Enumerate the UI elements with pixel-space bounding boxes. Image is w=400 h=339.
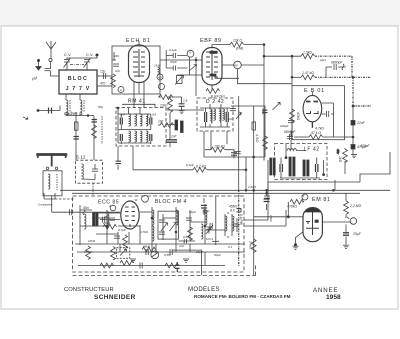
svg-text:MODELES: MODELES [188,287,220,293]
svg-text:19,6: 19,6 [154,64,160,68]
svg-text:1,47 kΩ: 1,47 kΩ [302,71,314,75]
svg-text:8,2 kΩ: 8,2 kΩ [196,165,206,169]
svg-text:1,5kΩ: 1,5kΩ [303,51,312,55]
svg-text:A: A [109,204,111,208]
svg-text:25µF: 25µF [352,232,362,236]
svg-text:22nF: 22nF [356,121,366,125]
svg-text:0,5µ: 0,5µ [183,235,189,239]
svg-text:220Ω: 220Ω [102,221,111,225]
svg-text:W: W [135,198,138,202]
svg-text:470: 470 [100,82,106,86]
svg-text:W: W [302,194,305,198]
svg-text:9,8: 9,8 [152,113,157,117]
svg-text:0,1(FM): 0,1(FM) [239,214,243,225]
svg-text:1,5: 1,5 [183,99,188,103]
svg-text:10kΩ: 10kΩ [88,239,96,243]
svg-text:J 7 7 V: J 7 7 V [66,86,91,92]
svg-text:AV: AV [234,64,238,68]
svg-text:Contacteur: Contacteur [38,203,54,207]
svg-text:22kΩ: 22kΩ [159,104,168,108]
svg-text:240: 240 [113,54,119,58]
svg-text:6800pF: 6800pF [284,130,296,134]
svg-text:(19,7kc): (19,7kc) [214,94,225,98]
svg-text:M.F.1: M.F.1 [206,237,214,241]
svg-text:0,1µF: 0,1µF [186,163,194,167]
svg-text:17,5V: 17,5V [84,250,93,254]
svg-text:4,7kΩ: 4,7kΩ [315,127,324,131]
svg-text:(FM): (FM) [236,47,243,51]
svg-text:Cadres: Cadres [64,111,78,116]
svg-text:47kΩ: 47kΩ [296,112,300,120]
svg-text:470kΩ: 470kΩ [287,205,297,209]
svg-text:45n: 45n [83,206,89,210]
svg-text:CONSTRUCTEUR: CONSTRUCTEUR [64,287,114,293]
svg-text:4,7kΩ: 4,7kΩ [255,134,259,143]
svg-text:SCHNEIDER: SCHNEIDER [94,294,136,301]
svg-text:68kΩ: 68kΩ [143,245,151,249]
svg-text:A.F.: A.F. [229,209,236,213]
svg-text:24pF: 24pF [188,210,196,214]
svg-text:45v: 45v [336,149,340,154]
svg-text:LF 42: LF 42 [304,147,320,153]
svg-text:ANNEE: ANNEE [313,287,338,294]
svg-text:12p: 12p [100,70,106,74]
svg-text:6800pF: 6800pF [331,61,343,65]
svg-text:A: A [189,51,191,55]
svg-text:0,1µF: 0,1µF [169,48,177,52]
svg-text:4,7kΩ: 4,7kΩ [140,230,149,234]
svg-text:1nF: 1nF [228,117,233,121]
svg-text:1nF: 1nF [115,69,120,73]
svg-text:0,1: 0,1 [228,245,233,249]
svg-text:100 kΩ: 100 kΩ [214,145,225,149]
svg-text:1kΩ: 1kΩ [338,156,342,163]
svg-text:1nF: 1nF [120,113,125,117]
svg-text:4,7pF: 4,7pF [118,228,126,232]
svg-text:10k: 10k [158,120,164,124]
svg-text:22k Ω: 22k Ω [232,39,242,43]
svg-text:2,4kΩ: 2,4kΩ [249,240,253,250]
svg-text:D 2 42: D 2 42 [206,99,224,105]
svg-text:RM 41: RM 41 [128,99,146,105]
svg-text:(am): (am) [320,58,326,62]
svg-text:220pF: 220pF [279,124,289,128]
svg-text:EM 81: EM 81 [312,197,331,203]
svg-text:2,4kΩ: 2,4kΩ [247,185,257,189]
svg-text:1958: 1958 [326,294,341,301]
svg-text:47 k Ω: 47 k Ω [311,131,321,135]
svg-text:C.V.: C.V. [64,52,71,57]
svg-text:2,2 MΩ: 2,2 MΩ [349,204,361,208]
svg-text:BLOC: BLOC [68,76,88,82]
svg-text:45n: 45n [104,215,109,219]
svg-text:470pF: 470pF [360,144,371,148]
svg-text:33pF: 33pF [202,210,210,214]
svg-text:10nF: 10nF [269,215,273,222]
svg-text:BLOC FM 4: BLOC FM 4 [155,199,187,205]
svg-text:EBF 89: EBF 89 [200,38,222,44]
svg-text:10nF: 10nF [261,108,265,115]
svg-text:1nF: 1nF [179,244,184,248]
svg-text:ROMANCE FM- BOLERO FM - CZARD: ROMANCE FM- BOLERO FM - CZARDAS FM [194,294,291,299]
svg-text:47pF: 47pF [170,60,177,64]
svg-text:25µF: 25µF [195,250,203,254]
svg-text:E B 01: E B 01 [304,88,325,94]
svg-text:6,3: 6,3 [158,76,162,80]
svg-text:50µF: 50µF [214,253,221,257]
svg-text:S 12: S 12 [76,155,86,160]
svg-text:ECH 81: ECH 81 [126,38,151,44]
svg-text:50p: 50p [98,105,103,109]
svg-text:A: A [120,88,122,92]
svg-text:C.V.: C.V. [86,52,93,57]
svg-text:0,5M: 0,5M [164,253,171,257]
